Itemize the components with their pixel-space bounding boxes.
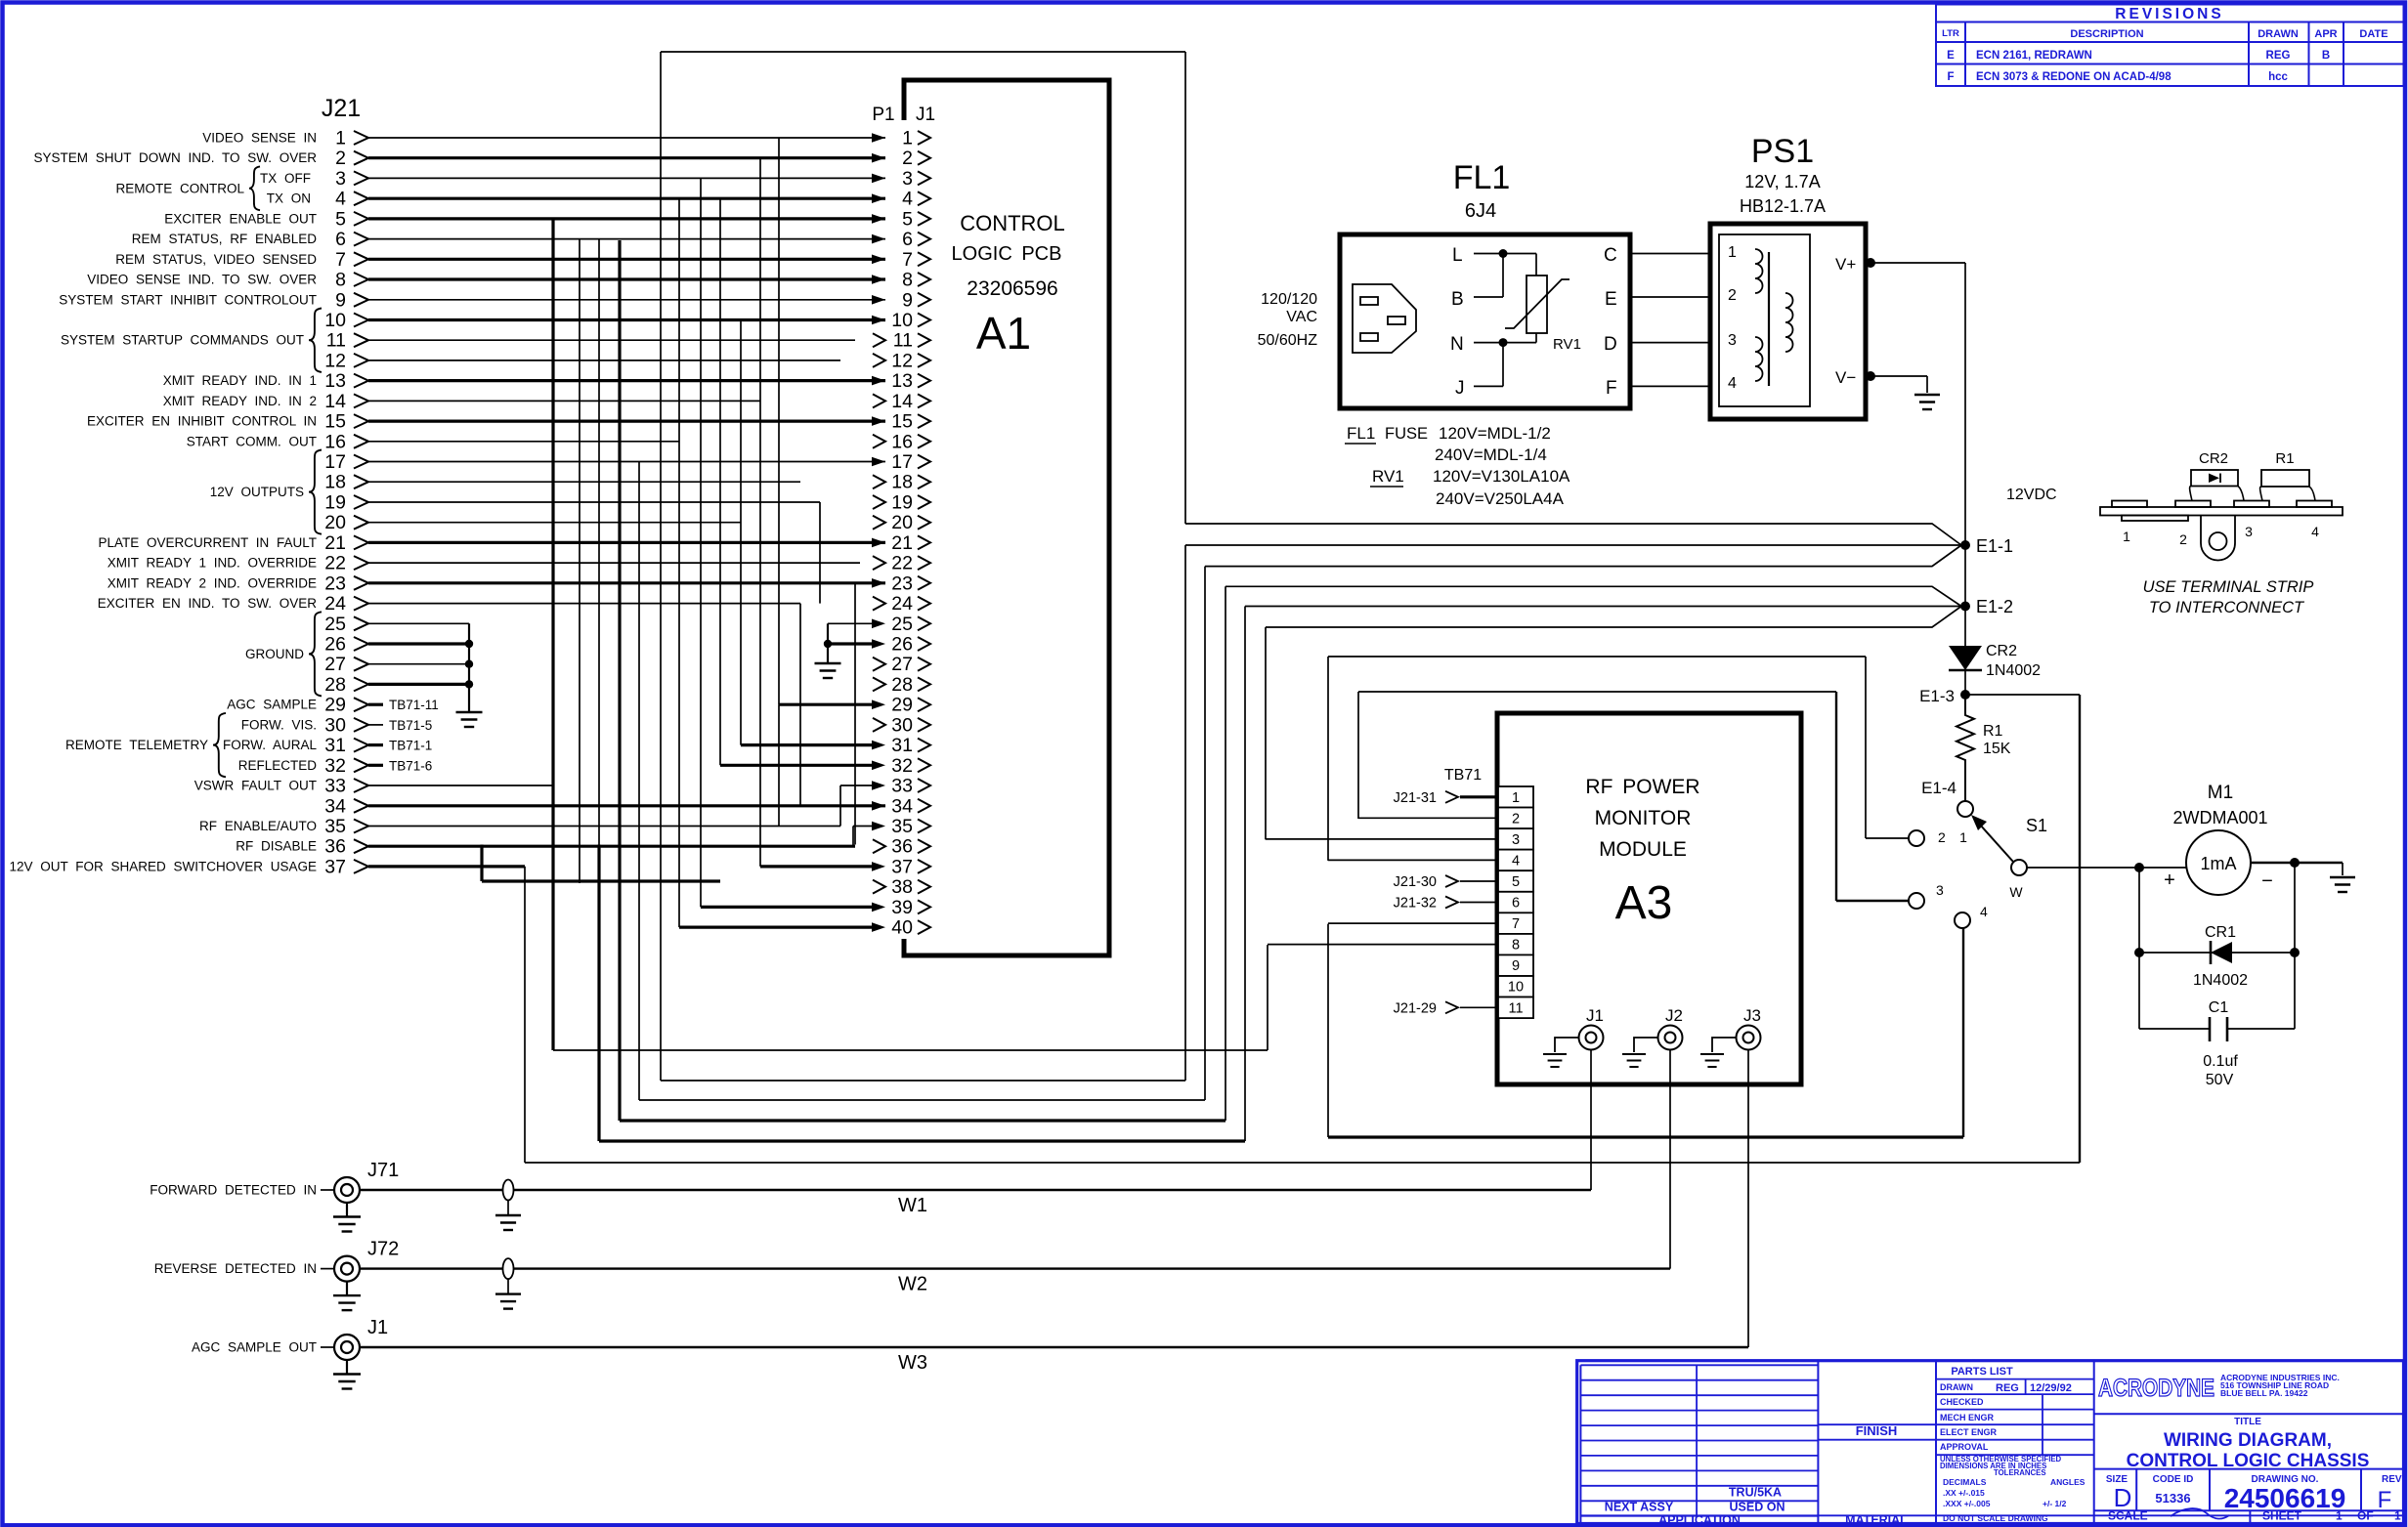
P1 pin 13 arrow and label [872,376,885,386]
vertical wire x=1274 [1244,607,1246,1142]
P1 pin 38 arrow and label [873,880,885,894]
svg-text:REM STATUS, RF ENABLED: REM STATUS, RF ENABLED [132,232,318,246]
svg-text:24: 24 [891,593,913,615]
svg-text:240V=MDL-1/4: 240V=MDL-1/4 [1435,445,1547,464]
svg-text:W3: W3 [898,1352,927,1374]
svg-text:1: 1 [1959,829,1967,845]
svg-text:J21-31: J21-31 [1394,790,1437,806]
terminal E1-1 chevron [1185,524,1961,545]
svg-text:C: C [1604,245,1617,266]
A3 RF power monitor module box [1497,713,1801,1084]
svg-text:CR2: CR2 [2199,450,2228,467]
terminal strip bar with pads [2100,507,2343,516]
svg-text:22: 22 [324,553,346,574]
P1 pin 1 arrow and label [872,133,885,143]
svg-text:2: 2 [1728,287,1737,304]
svg-text:A1: A1 [976,308,1031,359]
svg-text:1: 1 [1512,790,1520,806]
harness vertical wire x=634 [618,240,621,1121]
svg-text:CODE ID: CODE ID [2153,1474,2194,1485]
svg-text:1: 1 [335,128,346,149]
svg-text:B: B [1451,289,1464,310]
harness vertical wire x=873 [852,827,854,847]
svg-text:23: 23 [324,573,346,594]
svg-text:3: 3 [1728,332,1737,349]
svg-text:VAC: VAC [1286,309,1317,325]
P1 pin 35 arrow and label [872,822,885,831]
svg-text:+: + [2164,870,2175,891]
svg-text:34: 34 [891,795,913,817]
svg-text:ELECT ENGR: ELECT ENGR [1940,1427,1998,1437]
svg-text:J71: J71 [367,1160,399,1181]
svg-text:CONTROL: CONTROL [960,211,1065,235]
wire y708 to S1 contact 3 [1358,691,1836,693]
svg-text:SYSTEM SHUT DOWN IND. TO SW. O: SYSTEM SHUT DOWN IND. TO SW. OVER [33,150,317,165]
P1 pin 22 arrow and label [873,556,885,570]
svg-text:APPROVAL: APPROVAL [1940,1442,1989,1452]
svg-text:38: 38 [891,876,913,898]
svg-text:W1: W1 [898,1195,927,1216]
svg-text:REVERSE DETECTED IN: REVERSE DETECTED IN [154,1261,317,1276]
vertical wire x=1297 lower [1267,945,1268,1050]
wire FL1-E to PS1-2 [1630,296,1710,298]
svg-text:8: 8 [1512,938,1520,954]
svg-text:SYSTEM STARTUP COMMANDS OUT: SYSTEM STARTUP COMMANDS OUT [61,333,304,348]
P1 pin 33 arrow and label [872,781,885,790]
svg-text:15: 15 [324,411,346,433]
wire loop L4 [620,1119,1225,1122]
P1 pin 2 arrow and label [872,153,885,163]
svg-text:12V OUT FOR SHARED SWITCHOVER: 12V OUT FOR SHARED SWITCHOVER USAGE [9,859,317,873]
svg-text:E1-2: E1-2 [1976,597,2013,616]
svg-text:BLUE BELL PA. 19422: BLUE BELL PA. 19422 [2220,1388,2308,1398]
harness vertical wire x=758 [740,318,742,745]
svg-text:RV1: RV1 [1553,336,1581,353]
svg-text:1: 1 [2394,1509,2401,1523]
svg-text:W2: W2 [898,1274,927,1295]
harness vertical wire x=797 [778,704,780,826]
svg-text:TX ON: TX ON [267,191,311,206]
svg-text:A3: A3 [1615,877,1673,929]
svg-text:32: 32 [891,755,913,777]
svg-text:REG: REG [2266,50,2291,62]
svg-text:W: W [2009,884,2023,900]
svg-text:1: 1 [2123,529,2130,544]
diode CR2 1N4002 [1949,646,1982,670]
svg-text:.XXX +/-.005: .XXX +/-.005 [1943,1499,1991,1508]
svg-text:7: 7 [1512,916,1520,932]
svg-text:11: 11 [893,330,913,352]
svg-text:23206596: 23206596 [967,277,1057,300]
svg-text:28: 28 [324,674,346,696]
svg-text:1mA: 1mA [2200,854,2236,873]
svg-text:20: 20 [324,512,346,533]
svg-text:2: 2 [1512,811,1520,827]
svg-text:ACRODYNE: ACRODYNE [2098,1375,2214,1402]
diode CR1 1N4002 [2138,868,2140,1029]
svg-text:AGC SAMPLE: AGC SAMPLE [227,698,317,712]
svg-text:CONTROL LOGIC CHASSIS: CONTROL LOGIC CHASSIS [2127,1451,2370,1471]
svg-text:29: 29 [891,695,913,716]
P1 pin 16 arrow and label [873,435,885,448]
P1 pin 27 arrow and label [873,657,885,671]
svg-text:OF: OF [2357,1509,2374,1523]
vertical wire x=1254 [1225,586,1226,1121]
svg-text:CR1: CR1 [2205,924,2236,941]
svg-text:2: 2 [2179,531,2187,547]
wire E1-3 to right [1965,694,2080,696]
svg-text:8: 8 [335,270,346,291]
svg-text:8: 8 [902,270,913,291]
svg-text:P1: P1 [872,105,894,125]
svg-text:.XX +/-.015: .XX +/-.015 [1943,1488,1985,1498]
svg-text:RF DISABLE: RF DISABLE [236,839,317,854]
svg-text:26: 26 [324,634,346,656]
svg-text:18: 18 [324,472,346,493]
svg-text:D: D [2114,1483,2132,1512]
svg-text:SYSTEM START INHIBIT CONTROLOU: SYSTEM START INHIBIT CONTROLOUT [59,292,317,307]
svg-text:APR: APR [2314,28,2337,40]
harness vertical wire x=537 [524,867,526,1163]
svg-text:GROUND: GROUND [245,647,304,661]
svg-text:1N4002: 1N4002 [2193,972,2248,989]
wire feed to P1 pin 35 [853,826,873,827]
svg-text:12: 12 [891,350,913,371]
shield tap with ground on wire at y=1298 [503,1258,514,1279]
svg-text:XMIT READY 1 IND. OVERRIDE: XMIT READY 1 IND. OVERRIDE [107,556,317,571]
svg-text:TRU/5KA: TRU/5KA [1729,1486,1782,1500]
svg-text:ECN 3073 & REDONE ON ACAD: ECN 3073 & REDONE ON ACAD-4/98 [1976,71,2171,83]
svg-text:23: 23 [891,573,913,594]
wire loop L5a [599,1139,1245,1142]
svg-text:B: B [2322,50,2330,62]
svg-text:REVISIONS: REVISIONS [2115,6,2223,22]
svg-text:FINISH: FINISH [1856,1423,1898,1438]
J21 ground bus with junction dots and ground symbol [468,623,470,712]
svg-text:29: 29 [324,695,346,716]
svg-text:J1: J1 [916,105,935,125]
svg-text:+/- 1/2: +/- 1/2 [2042,1499,2067,1508]
svg-text:37: 37 [324,856,346,877]
svg-text:J: J [1455,378,1465,399]
svg-text:J72: J72 [367,1239,399,1260]
svg-text:START COMM. OUT: START COMM. OUT [187,434,317,448]
svg-text:E: E [1947,50,1955,62]
P1 pin 6 arrow and label [872,234,885,244]
svg-text:HB12-1.7A: HB12-1.7A [1740,196,1826,216]
transformer inside PS1 [1755,249,1763,293]
svg-text:2: 2 [335,148,346,169]
wire TB71-7 from loop [1328,922,1498,924]
svg-text:3: 3 [1936,882,1944,898]
svg-text:30: 30 [891,714,913,736]
wire feed to P1 pin 37 [760,865,873,868]
svg-text:16: 16 [891,431,913,452]
harness vertical wire x=839 [819,502,821,604]
svg-text:25: 25 [891,614,913,635]
P1 pin 31 arrow and label [872,741,885,750]
svg-text:R1: R1 [2275,450,2294,467]
harness vertical wire x=493 [480,845,483,882]
switch S1 [1957,801,1973,817]
vertical wire x=1909 to contact 2 [1865,657,1867,838]
svg-text:SHEET: SHEET [2262,1509,2302,1523]
wire FL1-C to PS1-1 [1630,253,1710,255]
IEC power inlet icon [1353,284,1416,353]
svg-text:0.1uf: 0.1uf [2203,1053,2238,1070]
P1 pin 10 arrow and label [872,316,885,325]
harness vertical wire x=613 [598,239,600,845]
P1 pin 32 arrow and label [872,761,885,771]
vertical wire x=1295 upper [1265,627,1267,839]
wire feed to P1 pin 33 [840,785,873,786]
svg-text:33: 33 [891,776,913,797]
wire feed to P1 pin 25 [828,622,873,624]
wire feed to P1 pin 32 [720,764,873,767]
svg-text:DATE: DATE [2359,28,2387,40]
svg-text:17: 17 [891,451,913,473]
svg-text:VIDEO SENSE IN: VIDEO SENSE IN [202,131,317,146]
svg-text:51336: 51336 [2155,1491,2190,1506]
svg-text:30: 30 [324,714,346,736]
svg-text:3: 3 [335,168,346,190]
svg-text:3: 3 [2245,524,2253,539]
svg-text:35: 35 [324,816,346,837]
svg-text:USE TERMINAL STRIP: USE TERMINAL STRIP [2143,578,2314,596]
svg-text:39: 39 [891,897,913,918]
svg-text:VIDEO SENSE IND. TO SW. OVER: VIDEO SENSE IND. TO SW. OVER [87,273,317,287]
svg-text:9: 9 [902,289,913,311]
wire TB71-8 from loop [1268,944,1498,946]
svg-text:R1: R1 [1983,723,2003,740]
svg-text:J21-32: J21-32 [1394,896,1437,912]
svg-text:19: 19 [324,492,346,514]
svg-text:TX OFF: TX OFF [260,171,311,186]
svg-text:5: 5 [902,208,913,230]
wire from A3 J2 down to W2 [1669,1050,1671,1269]
svg-text:12/29/92: 12/29/92 [2030,1382,2072,1394]
svg-text:RF ENABLE/AUTO: RF ENABLE/AUTO [199,819,317,833]
svg-text:TITLE: TITLE [2234,1417,2261,1427]
svg-text:31: 31 [324,735,346,756]
svg-text:5: 5 [335,208,346,230]
svg-text:AGC SAMPLE OUT: AGC SAMPLE OUT [192,1340,317,1355]
svg-text:1: 1 [1728,244,1737,261]
svg-text:22: 22 [891,553,913,574]
svg-text:MODULE: MODULE [1599,838,1687,861]
J21 pin 32 stub to TB71-6 [368,764,383,767]
J21 pin 30 stub to TB71-5 [368,724,383,726]
svg-text:DECIMALS: DECIMALS [1943,1477,1987,1487]
P1 pin 29 arrow and label [872,700,885,709]
svg-text:TOLERANCES: TOLERANCES [1994,1468,2046,1477]
revisions table [1936,5,2404,87]
harness vertical wire x=717 [700,178,702,907]
svg-text:2: 2 [902,148,913,169]
svg-text:MECH ENGR: MECH ENGR [1940,1413,1995,1422]
svg-text:EXCITER ENABLE OUT: EXCITER ENABLE OUT [164,211,317,226]
svg-text:TB71-11: TB71-11 [389,698,439,712]
svg-text:FORW. VIS.: FORW. VIS. [241,717,317,732]
svg-text:12V OUTPUTS: 12V OUTPUTS [210,485,304,499]
svg-text:10: 10 [891,310,913,331]
wire TB71-2 from loop [1358,817,1498,819]
vertical wire x=1213 lower [1184,545,1186,1081]
svg-text:USED ON: USED ON [1730,1500,1785,1513]
harness vertical wire x=819 [799,604,801,806]
svg-text:27: 27 [324,654,346,675]
P1 pin 4 arrow and label [872,193,885,203]
P1 pin 40 arrow and label [872,922,885,932]
P1 pin 19 arrow and label [873,495,885,509]
svg-text:J21-30: J21-30 [1394,874,1437,890]
wire top loop [661,51,1185,53]
svg-text:C1: C1 [2209,999,2229,1016]
svg-text:6J4: 6J4 [1465,200,1496,222]
svg-text:PARTS LIST: PARTS LIST [1951,1366,2013,1378]
svg-text:6: 6 [1512,896,1520,912]
P1 pin 23 arrow and label [872,578,885,588]
svg-text:J21-29: J21-29 [1394,1000,1437,1016]
P1 pin 15 arrow and label [872,416,885,426]
wire TB71-4 from loop [1328,859,1498,861]
svg-text:4: 4 [1728,375,1737,392]
svg-text:1: 1 [2336,1509,2343,1523]
svg-text:REM STATUS, VIDEO SENSED: REM STATUS, VIDEO SENSED [115,252,317,267]
svg-text:24: 24 [324,593,346,615]
harness vertical wire x=566 [551,219,554,1050]
wire from A3 J1 down to W1 [1590,1050,1592,1191]
harness vertical wire x=778 [759,158,761,867]
svg-text:MONITOR: MONITOR [1595,807,1692,829]
svg-text:ANGLES: ANGLES [2050,1477,2085,1487]
svg-text:M1: M1 [2208,783,2233,803]
svg-text:6: 6 [902,229,913,250]
svg-text:E1-1: E1-1 [1976,536,2013,556]
harness vertical wire x=654 [638,462,640,1101]
svg-text:10: 10 [1508,980,1524,996]
svg-text:MATERIAL: MATERIAL [1845,1513,1908,1527]
svg-text:4: 4 [1980,904,1988,919]
svg-text:EXCITER EN INHIBIT CONTROL IN: EXCITER EN INHIBIT CONTROL IN [87,414,317,429]
svg-text:E: E [1605,289,1617,310]
svg-text:SCALE: SCALE [2108,1509,2148,1523]
svg-text:FL1: FL1 [1453,159,1511,196]
svg-text:J3: J3 [1743,1006,1761,1025]
svg-text:RV1: RV1 [1372,467,1404,486]
wire feed to P1 pin 40 [679,925,873,928]
svg-text:WIRING DIAGRAM,: WIRING DIAGRAM, [2164,1430,2332,1451]
P1 pin 24 arrow and label [873,597,885,611]
svg-text:12V, 1.7A: 12V, 1.7A [1744,172,1820,191]
svg-text:2WDMA001: 2WDMA001 [2172,808,2267,827]
svg-text:14: 14 [891,391,913,412]
harness vertical wire x=613 [597,845,600,1142]
svg-text:PLATE OVERCURRENT IN FAULT: PLATE OVERCURRENT IN FAULT [98,535,317,550]
svg-text:CHECKED: CHECKED [1940,1397,1984,1407]
svg-text:28: 28 [891,674,913,696]
svg-text:XMIT READY 2 IND. OVERRIDE: XMIT READY 2 IND. OVERRIDE [107,575,317,590]
svg-text:TB71-5: TB71-5 [389,718,432,733]
svg-text:15: 15 [891,411,913,433]
node E1-3 [1960,690,1970,700]
svg-text:EXCITER EN IND. TO SW. OVER: EXCITER EN IND. TO SW. OVER [98,596,318,611]
P1 pin 34 arrow and label [872,801,885,811]
svg-text:V+: V+ [1835,255,1856,274]
svg-text:1: 1 [902,128,913,149]
svg-text:F: F [1947,71,1954,83]
wire feed to P1 pin 29 [779,703,873,706]
svg-text:TB71-6: TB71-6 [389,758,432,773]
svg-text:20: 20 [891,512,913,533]
svg-text:12VDC: 12VDC [2006,487,2057,503]
svg-text:7: 7 [902,249,913,271]
harness vertical wire x=695 [678,198,680,927]
svg-text:XMIT READY IND. IN 1: XMIT READY IND. IN 1 [163,373,317,388]
wire y672 to S1 contact 2 [1328,656,1866,657]
svg-text:25: 25 [324,614,346,635]
P1 pin 39 arrow and label [872,903,885,912]
wire loop L3 [639,1099,1205,1101]
svg-text:hcc: hcc [2268,71,2288,83]
P1 pin 28 arrow and label [873,677,885,691]
svg-text:4: 4 [902,189,913,210]
svg-text:ECN 2161, REDRAWN: ECN 2161, REDRAWN [1976,50,2092,62]
harness vertical wire x=875 [854,583,856,845]
vertical wire x=2009 below contact 4 [1962,928,1964,1137]
wire FL1-F to PS1-4 [1630,385,1710,387]
svg-text:27: 27 [891,654,913,675]
J21 pin 29 stub to TB71-11 [368,703,383,706]
shield tap with ground on wire at y=1218 [503,1180,514,1201]
title block [1577,1361,2404,1524]
vertical wire x=1213 upper [1184,52,1186,524]
vertical wire x=2128 E1-3 route [2079,695,2081,1163]
wire feed to P1 pin 26 [828,642,873,645]
svg-text:NEXT ASSY: NEXT ASSY [1605,1500,1674,1513]
svg-text:TB71-1: TB71-1 [389,739,432,753]
vertical wire x=1359 upper [1327,657,1329,861]
svg-text:36: 36 [324,836,346,858]
svg-text:13: 13 [324,370,346,392]
harness vertical wire x=593 [579,239,580,883]
svg-text:50V: 50V [2206,1072,2234,1088]
svg-text:FORWARD DETECTED IN: FORWARD DETECTED IN [150,1183,317,1198]
svg-text:−: − [2261,870,2273,892]
svg-text:XMIT READY IND. IN 2: XMIT READY IND. IN 2 [163,394,317,408]
harness vertical wire x=797 [778,138,780,704]
P1 pin 25 arrow and label [872,619,885,629]
vertical wire x=1359 lower [1327,924,1329,1137]
svg-text:L: L [1452,245,1463,266]
svg-text:4: 4 [2311,524,2319,539]
P1 pin 7 arrow and label [872,255,885,265]
P1 pin 26 arrow and label [872,639,885,649]
svg-text:26: 26 [891,634,913,656]
P1 pin 14 arrow and label [873,394,885,407]
svg-text:4: 4 [335,189,346,210]
svg-text:3: 3 [902,168,913,190]
svg-text:9: 9 [1512,958,1520,974]
svg-text:17: 17 [324,451,346,473]
harness vertical wire x=737 [719,198,721,765]
svg-text:DESCRIPTION: DESCRIPTION [2070,28,2143,40]
svg-text:6: 6 [335,229,346,250]
svg-text:32: 32 [324,755,346,777]
svg-text:33: 33 [324,776,346,797]
svg-text:REFLECTED: REFLECTED [238,758,318,773]
svg-text:CR2: CR2 [1986,643,2017,659]
